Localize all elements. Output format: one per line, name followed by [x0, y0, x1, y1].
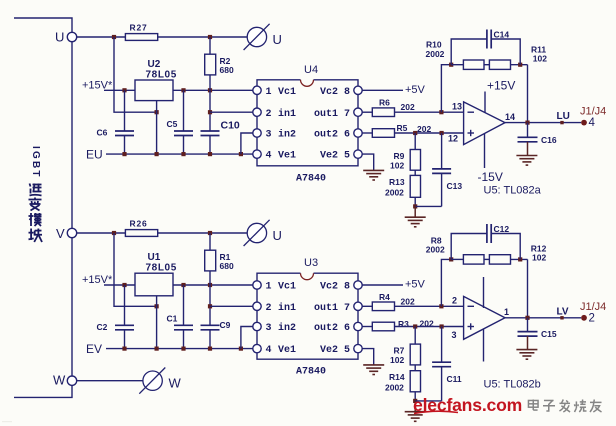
wire pin6 to resistor R3 — [362, 326, 372, 328]
pin 1 circle U3 — [253, 281, 261, 289]
resistor R7 102 vertical — [410, 344, 420, 365]
power ground below divider — [414, 401, 416, 412]
wire C14 right branch — [491, 39, 520, 65]
terminal U circle — [67, 32, 76, 41]
svg-text:102: 102 — [390, 161, 404, 171]
wire EU row — [106, 153, 253, 155]
svg-text:U: U — [55, 30, 64, 45]
junction R1 column pin2 row — [208, 304, 212, 308]
svg-text:W: W — [169, 376, 182, 391]
op-amp minus sign — [468, 305, 475, 307]
wire ground node to C13 bottom — [441, 174, 443, 207]
wire +15V supply stub — [484, 92, 486, 114]
svg-text:7: 7 — [344, 303, 350, 314]
capacitor C1 — [183, 285, 185, 325]
power ground below divider — [414, 206, 416, 217]
svg-text:out1: out1 — [314, 109, 338, 120]
wire U row terminal to R27 — [77, 36, 126, 38]
voltage regulator U2 78L05 — [135, 80, 173, 101]
svg-text:C11: C11 — [447, 374, 462, 384]
svg-text:out2: out2 — [314, 130, 338, 141]
svg-text:C13: C13 — [447, 181, 463, 191]
vertical label Chinese char 4 — [29, 229, 43, 243]
junction EV C1 — [181, 347, 185, 351]
pin 4 circle U3 — [253, 344, 261, 352]
svg-text:U3: U3 — [304, 257, 318, 269]
junction net label LV tap — [560, 316, 563, 319]
junction EU regulator gnd — [155, 152, 159, 156]
svg-text:Ve2: Ve2 — [320, 345, 338, 356]
svg-text:R3: R3 — [398, 319, 409, 329]
junction output feedback corner — [525, 121, 529, 125]
svg-text:4: 4 — [266, 151, 272, 162]
svg-text:A7840: A7840 — [296, 367, 326, 378]
vertical label Chinese char 3 — [29, 213, 42, 226]
pin 2 circle U3 — [253, 302, 261, 310]
svg-text:U1: U1 — [148, 252, 161, 263]
svg-text:202: 202 — [401, 102, 415, 112]
junction node R2 column top — [208, 35, 212, 39]
resistor R8 2002 — [463, 255, 484, 264]
pin 3 circle U4 — [253, 129, 261, 137]
svg-text:+5V: +5V — [405, 84, 426, 96]
wire trunk W to bottom-left edge — [14, 385, 72, 397]
wire pin5 to ground — [362, 154, 374, 170]
capacitor C2 — [124, 285, 126, 325]
svg-text:LU: LU — [557, 111, 570, 122]
svg-text:C2: C2 — [97, 322, 108, 332]
junction divider R9 tap — [413, 131, 417, 135]
svg-text:78L05: 78L05 — [146, 263, 177, 274]
junction EU C5 — [181, 152, 185, 156]
svg-text:2002: 2002 — [426, 49, 445, 59]
pin 8 circle U4 — [354, 86, 362, 94]
svg-text:out2: out2 — [314, 323, 338, 334]
wire regulator gnd pin down to EV — [156, 296, 158, 349]
resistor R12 102 — [489, 255, 510, 264]
wire top feeder from edge to U terminal — [14, 18, 72, 32]
wire +15V to regulator input — [104, 284, 135, 286]
junction R1 column pin1 row — [208, 283, 212, 287]
resistor R26 — [125, 230, 157, 237]
optocoupler U3 A7840 box — [257, 273, 358, 359]
svg-text:2002: 2002 — [385, 383, 404, 393]
capacitor C6 — [124, 90, 126, 131]
svg-text:+5V: +5V — [405, 279, 426, 291]
svg-text:2002: 2002 — [385, 187, 404, 197]
wire stub to R7 — [414, 327, 416, 345]
junction +15V / C6 — [122, 88, 126, 92]
capacitor C10 — [201, 130, 220, 132]
svg-text:102: 102 — [533, 54, 547, 64]
wire between R7 and R14 — [414, 365, 416, 371]
wire pin7 to resistor R6 — [362, 111, 372, 113]
capacitor C12 plates — [486, 224, 488, 243]
svg-text:8: 8 — [344, 282, 350, 293]
op-amp minus sign — [468, 111, 475, 113]
junction regulator gnd pin — [155, 304, 159, 308]
svg-text:4: 4 — [266, 345, 272, 356]
svg-text:U5: TL082b: U5: TL082b — [484, 379, 541, 391]
svg-text:C10: C10 — [221, 120, 240, 132]
svg-text:A7840: A7840 — [296, 173, 326, 184]
junction C1 top — [181, 283, 185, 287]
connector terminal dot pin 4 — [581, 120, 587, 126]
junction R2 column pin1 row — [208, 88, 212, 92]
pin 8 circle U3 — [354, 281, 362, 289]
resistor R11 102 — [489, 60, 510, 69]
svg-text:in2: in2 — [278, 322, 296, 334]
svg-text:680: 680 — [220, 65, 234, 75]
svg-text:Vc1: Vc1 — [278, 87, 296, 98]
junction node sense column x114 y37 — [112, 35, 116, 39]
resistor R5 202 — [372, 129, 394, 138]
wire pin2 row from column to IC pin2 — [210, 305, 253, 307]
svg-text:1: 1 — [266, 87, 272, 98]
svg-text:78L05: 78L05 — [146, 70, 177, 81]
svg-text:202: 202 — [401, 296, 415, 306]
svg-text:Vc2: Vc2 — [320, 87, 338, 98]
svg-text:R5: R5 — [397, 123, 408, 133]
wire R3 to opamp non-inverting input — [395, 326, 464, 328]
terminal V circle — [67, 228, 76, 237]
wire to R10 — [451, 64, 463, 66]
svg-text:R7: R7 — [394, 346, 405, 356]
wire C16 to ground — [527, 142, 529, 156]
svg-text:+15V: +15V — [487, 79, 515, 93]
svg-text:12: 12 — [448, 134, 458, 144]
wire trunk V to W — [71, 238, 73, 376]
wire pin3 L-branch — [241, 133, 253, 154]
resistor R13 2002 vertical — [410, 175, 420, 197]
junction +15V / C2 — [122, 283, 126, 287]
wire +supply stub lower opamp — [483, 277, 485, 308]
wire pin5 to ground — [362, 349, 374, 365]
svg-text:5: 5 — [344, 151, 350, 162]
svg-text:13: 13 — [452, 102, 462, 112]
svg-text:Ve1: Ve1 — [278, 151, 296, 162]
junction EU C10 — [208, 152, 212, 156]
junction EV regulator gnd — [155, 347, 159, 351]
pin 3 circle U3 — [253, 322, 261, 330]
pin 1 circle U4 — [253, 86, 261, 94]
pin 5 circle U4 — [354, 150, 362, 158]
svg-text:J1/J4: J1/J4 — [580, 106, 606, 118]
svg-text:C14: C14 — [494, 30, 510, 40]
junction EU pin3 branch — [239, 152, 243, 156]
svg-text:U2: U2 — [148, 59, 161, 70]
wire between R8 R12 — [484, 258, 489, 260]
wire sense column down to regulator gnd corner — [114, 233, 157, 306]
footer gray Chinese char zi — [543, 400, 555, 411]
resistor R3 202 — [372, 322, 394, 331]
svg-text:680: 680 — [220, 261, 234, 271]
junction node R1 column top — [208, 231, 212, 235]
junction EU C6 — [122, 152, 126, 156]
svg-text:LV: LV — [557, 306, 569, 317]
svg-text:6: 6 — [344, 130, 350, 141]
svg-text:4: 4 — [589, 117, 596, 129]
wire R6 to opamp inverting input — [395, 111, 464, 113]
svg-text:C6: C6 — [97, 128, 108, 138]
wire stub top to resistor R2 — [209, 37, 211, 54]
wire C15 to ground — [527, 336, 529, 350]
svg-text:R14: R14 — [389, 372, 405, 382]
ground pin5 — [363, 365, 384, 375]
footer gray Chinese char fa — [559, 400, 570, 413]
footer gray Chinese char dian — [528, 400, 538, 411]
wire R26 to voltmeter — [158, 232, 248, 234]
svg-text:2002: 2002 — [426, 245, 445, 255]
wire R12 to output corner — [511, 258, 528, 260]
svg-text:2: 2 — [266, 109, 272, 120]
junction divider ground node — [413, 399, 417, 403]
junction feedback left node — [449, 257, 453, 261]
junction feedback right node — [518, 63, 522, 67]
wire opamp output to connector — [505, 122, 581, 124]
wire pin3 L-branch — [241, 327, 253, 349]
svg-text:2: 2 — [266, 303, 272, 314]
wire R13 bottom to ground junction — [414, 197, 416, 206]
junction regulator gnd pin — [155, 110, 159, 114]
svg-text:2: 2 — [452, 296, 457, 306]
junction C5 top — [181, 88, 185, 92]
wire R5 to opamp non-inverting input — [395, 132, 464, 134]
junction feedback tap — [439, 110, 443, 114]
capacitor C15 on output — [527, 318, 529, 332]
svg-text:-15V: -15V — [478, 170, 503, 184]
svg-text:R27: R27 — [130, 23, 148, 33]
junction C11 tap — [440, 324, 444, 328]
voltage regulator U1 78L05 — [135, 273, 173, 296]
wire pin8 to +5V — [362, 284, 403, 286]
svg-text:J1/J4: J1/J4 — [580, 301, 606, 313]
svg-text:R9: R9 — [394, 151, 405, 161]
wire R4 to opamp inverting input — [395, 305, 464, 307]
junction divider ground node — [413, 204, 417, 208]
wire inverting node up to feedback row — [441, 259, 451, 306]
svg-text:R6: R6 — [379, 98, 390, 108]
wire regulator gnd pin down to EU — [156, 101, 158, 155]
svg-text:2: 2 — [589, 312, 595, 324]
vertical label Chinese char 1 — [30, 184, 42, 196]
op-amp U5 TL082b triangle — [464, 296, 505, 339]
resistor R9 102 vertical — [410, 150, 420, 171]
wire feedback to output node — [527, 65, 529, 123]
junction node sense column x114 y233 — [112, 231, 116, 235]
svg-text:R13: R13 — [389, 177, 405, 187]
svg-text:Vc2: Vc2 — [320, 282, 338, 293]
capacitor C5 — [183, 90, 185, 131]
wire C12 right branch — [491, 234, 520, 260]
wire R14 bottom to ground junction — [414, 392, 416, 401]
wire opamp output to connector — [505, 317, 581, 319]
junction feedback left node — [449, 63, 453, 67]
junction C13 tap — [440, 131, 444, 135]
resistor R14 2002 vertical — [410, 371, 420, 392]
wire regulator output to IC pin1 — [173, 89, 253, 91]
svg-text:6: 6 — [344, 323, 350, 334]
ground below C16 — [516, 156, 537, 166]
pin 6 circle U4 — [354, 129, 362, 137]
footer gray Chinese char shao — [574, 400, 586, 413]
svg-text:3: 3 — [266, 323, 272, 334]
svg-text:8: 8 — [344, 87, 350, 98]
op-amp plus sign — [468, 132, 475, 134]
wire between R9 and R13 — [414, 170, 416, 175]
pin 4 circle U4 — [253, 150, 261, 158]
capacitor C9 — [201, 324, 220, 326]
pin 5 circle U3 — [354, 344, 362, 352]
svg-text:EU: EU — [86, 147, 103, 161]
IC notch U4 — [301, 80, 314, 87]
wire sense column down to regulator gnd corner — [114, 37, 157, 112]
wire -supply stub lower opamp — [483, 329, 485, 362]
wire pin6 to resistor R5 — [362, 132, 372, 134]
wire C12 left branch — [451, 234, 487, 260]
svg-text:V: V — [56, 226, 65, 241]
wire R1 column down through pin2 row — [209, 271, 211, 325]
wire EV row — [106, 348, 253, 350]
svg-text:Ve1: Ve1 — [278, 345, 296, 356]
svg-text:C16: C16 — [541, 135, 557, 145]
wire R11 to output corner — [511, 64, 528, 66]
svg-text:in1: in1 — [278, 108, 296, 120]
connector terminal dot pin 2 — [581, 315, 587, 321]
svg-text:U5: TL082a: U5: TL082a — [484, 185, 542, 197]
wire between R10 R11 — [484, 64, 489, 66]
wire R27 to voltmeter — [158, 36, 248, 38]
wire +15V to regulator input — [104, 89, 135, 91]
svg-text:W: W — [53, 373, 66, 388]
svg-text:3: 3 — [266, 130, 272, 141]
svg-text:7: 7 — [344, 109, 350, 120]
svg-text:102: 102 — [532, 252, 546, 262]
svg-text:C1: C1 — [167, 313, 178, 323]
voltmeter circle symbol — [244, 24, 270, 50]
junction net label LU tap — [560, 121, 563, 124]
op-amp U5 TL082a triangle — [464, 102, 505, 145]
svg-text:in2: in2 — [278, 129, 296, 141]
svg-text:out1: out1 — [314, 303, 338, 314]
capacitor C11 — [441, 327, 443, 363]
resistor R4 202 — [372, 302, 394, 311]
svg-text:U: U — [273, 228, 282, 243]
resistor R1 vertical — [205, 250, 216, 271]
wire V row terminal to R26 — [77, 232, 126, 234]
svg-text:C9: C9 — [220, 320, 231, 330]
svg-text:Ve2: Ve2 — [320, 151, 338, 162]
svg-text:U4: U4 — [304, 64, 318, 76]
resistor R6 202 — [372, 108, 394, 117]
junction feedback tap — [439, 304, 443, 308]
pin 7 circle U3 — [354, 302, 362, 310]
ground below C15 — [516, 350, 537, 360]
svg-text:EV: EV — [86, 342, 102, 356]
junction output feedback corner — [525, 316, 529, 320]
svg-text:1: 1 — [504, 307, 509, 317]
terminal W circle — [67, 376, 76, 385]
svg-text:14: 14 — [505, 112, 515, 122]
svg-text:R4: R4 — [379, 292, 390, 302]
svg-text:R10: R10 — [426, 40, 442, 50]
wire -15V supply stub — [484, 134, 486, 169]
capacitor C16 on output — [527, 123, 529, 138]
wire pin8 to +5V — [362, 89, 403, 91]
voltmeter W symbol — [139, 368, 165, 394]
svg-text:1: 1 — [266, 282, 272, 293]
voltmeter circle symbol — [244, 220, 270, 246]
wire pin7 to resistor R4 — [362, 305, 372, 307]
op-amp plus sign — [468, 326, 475, 328]
junction R2 column pin2 row — [208, 110, 212, 114]
wire C14 left branch — [451, 39, 487, 65]
wire ground node to C11 bottom — [441, 367, 443, 401]
wire stub top to resistor R1 — [209, 233, 211, 250]
wire R2 column down through pin2 row — [209, 75, 211, 131]
wire inverting node up to feedback row — [441, 65, 451, 113]
junction EV pin3 branch — [239, 347, 243, 351]
pin 2 circle U4 — [253, 108, 261, 116]
wire stub to R9 — [414, 133, 416, 150]
pin 7 circle U4 — [354, 108, 362, 116]
svg-text:3: 3 — [452, 330, 457, 340]
wire W terminal to voltmeter — [77, 380, 143, 382]
junction EV C2 — [122, 347, 126, 351]
svg-text:C5: C5 — [167, 119, 178, 129]
junction EV C9 — [208, 347, 212, 351]
wire to R8 — [451, 258, 463, 260]
svg-text:U: U — [273, 32, 282, 47]
svg-text:C15: C15 — [541, 329, 557, 339]
wire feedback to output node — [527, 259, 529, 317]
svg-text:C12: C12 — [494, 224, 510, 234]
svg-text:in1: in1 — [278, 302, 296, 314]
scan smudge bottom left — [2, 421, 12, 422]
logo swoosh — [414, 411, 458, 413]
resistor R2 vertical — [205, 54, 216, 75]
ground pin5 — [363, 170, 384, 180]
svg-text:IGBT: IGBT — [30, 146, 41, 179]
pin 6 circle U3 — [354, 322, 362, 330]
svg-text:Vc1: Vc1 — [278, 282, 296, 293]
wire pin2 row from column to IC pin2 — [210, 111, 253, 113]
capacitor C13 — [441, 133, 443, 169]
svg-text:102: 102 — [390, 355, 404, 365]
resistor R10 2002 — [463, 60, 484, 69]
vertical label Chinese char 2 — [29, 198, 42, 211]
optocoupler U4 A7840 box — [257, 80, 358, 166]
junction divider R7 tap — [413, 324, 417, 328]
svg-text:5: 5 — [344, 345, 350, 356]
wire regulator output to IC pin1 — [173, 284, 253, 286]
wire trunk U to V — [71, 42, 73, 229]
resistor R27 — [125, 34, 157, 41]
junction feedback right node — [518, 257, 522, 261]
svg-text:R26: R26 — [130, 219, 148, 229]
IC notch U3 — [301, 273, 314, 280]
capacitor C14 plates — [486, 30, 488, 49]
footer gray Chinese char you — [590, 400, 602, 413]
